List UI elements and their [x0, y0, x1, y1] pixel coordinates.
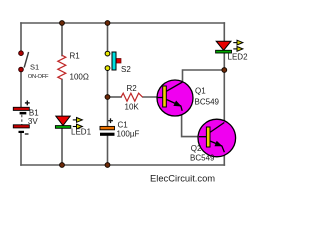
- svg-text:10K: 10K: [125, 103, 140, 112]
- svg-text:S1: S1: [30, 62, 39, 71]
- svg-text:C1: C1: [118, 121, 129, 130]
- svg-text:R2: R2: [127, 84, 138, 93]
- svg-text:LED1: LED1: [71, 128, 92, 137]
- svg-text:3V: 3V: [28, 117, 38, 126]
- svg-text:R1: R1: [70, 52, 81, 61]
- svg-text:100µF: 100µF: [117, 130, 140, 139]
- svg-text:S2: S2: [121, 65, 131, 74]
- svg-text:100Ω: 100Ω: [70, 73, 89, 82]
- svg-text:ElecCircuit.com: ElecCircuit.com: [150, 172, 215, 183]
- svg-text:Q1: Q1: [195, 87, 206, 96]
- svg-text:LED2: LED2: [228, 53, 249, 62]
- svg-text:BC549: BC549: [195, 98, 220, 107]
- svg-text:BC549: BC549: [190, 154, 215, 163]
- svg-text:ON-OFF: ON-OFF: [28, 74, 49, 80]
- svg-text:Q2: Q2: [191, 144, 202, 153]
